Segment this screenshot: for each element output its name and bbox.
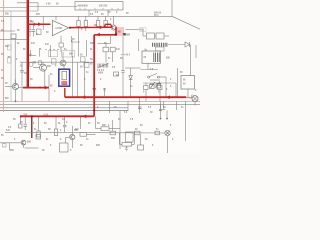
wire red bottom long	[65, 96, 186, 98]
wire r12 top lead	[105, 44, 107, 48]
wire r11 lead	[159, 90, 161, 102]
capacitor C9	[63, 125, 67, 127]
wire v163 low	[163, 101, 165, 109]
IC box U2 top center	[75, 2, 123, 11]
wire v56	[55, 116, 57, 129]
resistor R5	[96, 21, 99, 27]
wire right mid horizontal	[126, 29, 140, 31]
wire q3 bottom lead	[15, 90, 17, 102]
ground bottom mid	[125, 146, 128, 151]
wire h148	[25, 147, 39, 149]
wire v176 low	[176, 101, 178, 110]
wire v139	[139, 97, 141, 113]
resistor R18	[84, 63, 89, 67]
svg-text:88V: 88V	[36, 14, 41, 16]
wire red drop at q1	[115, 27, 117, 35]
resistor R28	[122, 143, 132, 147]
wire cap branch bottom	[33, 31, 35, 36]
wire v49 below stub	[48, 88, 50, 101]
wire v64 cap	[64, 116, 66, 125]
wire vert through red	[42, 16, 44, 30]
capacitor C10	[138, 107, 142, 109]
resistor R6	[104, 21, 107, 27]
wire low left v20	[19, 116, 21, 124]
node red corner dot	[115, 33, 117, 35]
resistor R12	[103, 47, 109, 52]
capacitor C6	[110, 47, 115, 52]
wire pink bus line	[0, 100, 200, 102]
svg-text:888 888: 888 888	[99, 6, 108, 8]
transistor Q1	[111, 16, 116, 30]
node red arrow h1	[38, 22, 42, 26]
wire q3 top lead	[15, 80, 17, 84]
wire R5 top lead	[97, 16, 99, 20]
resistor R7	[147, 33, 155, 39]
wire R5 bottom lead	[97, 26, 99, 29]
wire v65 low	[65, 137, 67, 143]
wire q6 base feed	[66, 136, 70, 138]
node small circle by lamp	[191, 95, 193, 97]
wire diagonal right	[172, 16, 200, 29]
wire v138	[138, 39, 140, 51]
wire q2 emitter	[44, 70, 46, 87]
resistor R27	[155, 131, 159, 135]
wire v104	[104, 88, 106, 97]
svg-text:8 88: 8 88	[46, 4, 51, 6]
component box low right	[138, 145, 144, 150]
node s2 box a	[150, 85, 155, 89]
wire opamp top feed	[55, 16, 57, 20]
wire mid v123 long	[122, 58, 124, 71]
wire v80	[80, 116, 82, 129]
transistor Q6	[70, 134, 75, 139]
wire c6 bottom lead	[112, 52, 114, 62]
wire red left stub to blue box	[23, 87, 49, 89]
wire v112	[112, 120, 114, 131]
wire q6 bottom lead	[71, 140, 73, 148]
wire R4 top lead	[85, 16, 87, 20]
op-amp U1	[52, 20, 68, 35]
node red dot stub	[39, 87, 41, 89]
wire v95 gray below	[95, 116, 97, 128]
wire cap branch top	[33, 24, 35, 29]
component small box mid	[114, 72, 119, 76]
svg-text:8V: 8V	[50, 86, 53, 88]
wire h128	[96, 128, 101, 130]
wire r18 top	[86, 40, 88, 57]
node s2 box b	[156, 84, 161, 88]
wire v185 right	[185, 101, 187, 141]
node red arrow h1b	[34, 23, 37, 26]
component small box c	[37, 29, 42, 35]
node red dot low left	[20, 115, 22, 117]
transistor Q3	[12, 83, 18, 89]
wire upper-left horizontal	[0, 10, 38, 12]
node red arrow return	[96, 33, 100, 37]
component box bottom	[60, 143, 69, 152]
node red arrow stub	[45, 86, 49, 90]
capacitor C11	[28, 30, 32, 32]
node dark junction block	[123, 33, 126, 36]
transformer TR1 core	[153, 43, 167, 47]
wire h83 right	[143, 82, 176, 84]
resistor R4	[84, 21, 87, 27]
wire pair link left	[143, 35, 147, 37]
wire v120 long	[119, 111, 121, 150]
wire k2 bottom lead	[187, 89, 189, 97]
transistor Q4 top center	[60, 60, 66, 66]
wire diode lead down	[130, 79, 132, 97]
lamp L1	[165, 130, 170, 135]
wire v128	[127, 101, 129, 111]
wire h146	[119, 143, 122, 145]
node red arrow bottom1	[82, 95, 86, 99]
ground	[121, 55, 125, 58]
transistor Q5	[21, 140, 26, 145]
node dot a	[160, 118, 162, 120]
wire q5 bottom	[23, 145, 25, 148]
node red junction lower	[93, 109, 95, 111]
wire top rail	[0, 15, 172, 17]
wire sub rail under opamp	[28, 6, 77, 8]
wire dark red bottom vertical	[31, 116, 33, 138]
wire bus line 4	[0, 110, 128, 112]
wire c9 lower	[64, 127, 66, 132]
wire red blue-box stub	[64, 88, 66, 97]
wire R6 top lead	[105, 16, 107, 20]
wire q2 base	[33, 67, 40, 69]
wire lower area v146	[110, 82, 177, 114]
wire r12 bottom lead	[105, 52, 107, 63]
wire v190 bottom	[190, 45, 192, 76]
resistor R11	[158, 86, 163, 90]
wire stub dot a	[160, 105, 162, 118]
resistor R29	[80, 133, 87, 137]
wire pink left margin vertical	[3, 0, 5, 112]
wire q4 leads	[63, 52, 77, 72]
relay K1 hatch	[154, 53, 159, 63]
wire relay bottom horizontal	[141, 69, 159, 71]
svg-text:8888: 8888	[98, 73, 104, 75]
transistor Q2	[40, 64, 47, 71]
diode D1	[185, 42, 190, 47]
capacitor C12	[33, 62, 36, 63]
wire v196	[195, 45, 197, 58]
capacitor C14	[159, 109, 162, 110]
node red arrow bottom2	[166, 95, 170, 99]
wire R3 bottom lead	[78, 27, 80, 57]
wire cap branch left mid	[20, 62, 49, 101]
node small box top	[156, 47, 165, 51]
wire h128 b	[109, 128, 120, 130]
connector J1 pins	[98, 63, 109, 68]
svg-text:88888888: 88888888	[78, 6, 89, 8]
wire left horizontal y31	[0, 30, 15, 32]
wire red horizontal into opamp	[28, 23, 51, 25]
resistor R1	[11, 34, 16, 39]
component box low mid	[126, 132, 134, 142]
wire r10 lead	[145, 90, 147, 102]
wire R3 top lead	[78, 16, 80, 20]
wire lamp stub	[194, 101, 196, 105]
wire diode branch	[130, 68, 132, 76]
box right K2	[181, 76, 195, 89]
node dot b	[166, 118, 168, 120]
resistor R19 inside blue box	[62, 71, 67, 80]
wire v176	[175, 83, 177, 97]
capacitor C1	[32, 30, 35, 32]
capacitor C2	[59, 43, 63, 47]
resistor R25	[110, 131, 116, 135]
svg-text:8.88: 8.88	[44, 115, 49, 117]
wire red main vertical	[27, 0, 30, 88]
capacitor C5	[121, 71, 124, 73]
wire red opamp output	[70, 26, 112, 28]
resistor R26	[134, 131, 140, 135]
wire q3 to red stub	[19, 87, 23, 89]
wire mid-left rail	[20, 61, 95, 63]
wire dashed rail	[45, 49, 59, 51]
node q3 junction dot	[15, 100, 17, 102]
wire lamp lead	[167, 136, 169, 153]
wire cap C2 lead	[60, 47, 62, 52]
wire q2 collector	[42, 62, 44, 64]
capacitor C15	[162, 108, 165, 110]
resistor R16	[81, 57, 86, 62]
resistor row left: R14	[39, 57, 90, 67]
wire v113	[110, 36, 112, 44]
wire c5 lead	[122, 72, 124, 97]
wire v84	[84, 62, 86, 97]
switch S2 cluster	[150, 82, 161, 89]
resistor R3	[77, 21, 80, 27]
wire h146 b	[132, 143, 135, 145]
svg-text:88 8: 88 8	[126, 55, 131, 57]
node red dot opamp out	[69, 27, 71, 29]
resistor R24	[101, 127, 109, 131]
wire pair link mid	[155, 35, 157, 37]
wire switch drop	[165, 77, 167, 97]
node red arrow down mid	[92, 88, 96, 92]
wire low left v25	[24, 116, 26, 124]
wire relay bottom lead	[147, 63, 149, 69]
wire h44 right	[168, 44, 185, 46]
wire c8 lower	[24, 126, 26, 130]
wire right area h68	[125, 67, 141, 69]
component blue highlight box	[59, 69, 70, 86]
wire v140 low	[140, 135, 142, 145]
wire right vertical top	[171, 0, 173, 16]
lamp L2 circle	[192, 96, 198, 102]
wire blue-box right verticals	[73, 62, 85, 97]
switch S1	[148, 74, 166, 81]
resistor R8	[156, 33, 164, 39]
wire red main vertical core	[27, 0, 29, 88]
wire q6 top lead	[71, 126, 73, 134]
wire r10 top	[145, 83, 147, 86]
wire r14 top	[39, 48, 41, 57]
wire red bottom fade	[186, 96, 193, 98]
wire q5 base feed	[0, 142, 21, 144]
capacitor C13	[103, 89, 106, 91]
node left label box b	[8, 57, 12, 63]
wire jog top	[17, 3, 38, 11]
wire v177	[177, 68, 179, 97]
wire stub dot b	[166, 111, 168, 119]
wire pair link right	[164, 35, 169, 37]
node label mid right	[140, 28, 147, 32]
node IC pin ticks	[80, 8, 118, 10]
node label box b	[62, 51, 75, 57]
wire R4 bottom lead	[85, 27, 87, 32]
svg-text:LM393: LM393	[55, 28, 63, 30]
resistor R21	[37, 131, 40, 137]
relay K1 box	[142, 51, 161, 63]
node red mark in blue box	[62, 82, 67, 85]
resistor R20	[19, 124, 22, 128]
wire r29 right	[87, 133, 96, 135]
wire mid rail	[98, 43, 111, 45]
node red arrow lower	[83, 115, 87, 119]
wire r13 top	[30, 50, 32, 57]
node left label box a	[8, 45, 12, 50]
wire red return h	[94, 34, 116, 36]
wire under opamp	[60, 36, 62, 43]
wire c7 lower	[21, 72, 23, 87]
wire elbow right of triangle	[71, 36, 80, 42]
wire red bump over q1	[104, 24, 112, 27]
component bottom left box	[3, 144, 7, 148]
wire bus line 2	[0, 104, 200, 106]
wire c7 below stub	[21, 88, 23, 101]
wire ground feed	[122, 36, 124, 54]
wire v143	[142, 30, 144, 36]
node red arrow out	[100, 26, 104, 30]
wire R6 bottom lead	[105, 26, 107, 29]
wire green-gray left vertical	[10, 11, 12, 101]
wire left column vertical	[14, 39, 16, 87]
wire v49	[48, 75, 50, 87]
capacitor C8	[24, 125, 28, 127]
wire q7 base	[28, 55, 36, 57]
wire bus line 3	[0, 107, 128, 109]
capacitor C7	[20, 71, 23, 73]
lamp L2 marks	[193, 97, 197, 101]
resistor R23	[36, 135, 41, 139]
wire r11 top	[159, 83, 161, 86]
wire v42	[38, 116, 40, 131]
wire left top h7	[0, 7, 28, 9]
wire drop v119	[118, 133, 120, 144]
wire q3 base	[5, 86, 12, 88]
resistor R22	[54, 129, 57, 136]
node label box a	[49, 51, 58, 57]
resistor R10	[144, 86, 149, 90]
wire c11 leads	[29, 24, 31, 36]
wire drop v134	[133, 133, 135, 144]
wire r15 top	[50, 45, 52, 57]
wire red long drop	[93, 35, 95, 117]
wire v160 low	[160, 101, 162, 109]
wire r16 top	[71, 40, 73, 57]
wire box pin left	[88, 10, 90, 16]
diode D2	[129, 76, 133, 80]
transistor Q7	[29, 63, 33, 67]
wire red lower long	[20, 115, 94, 117]
node red dot low left2	[31, 115, 33, 117]
wire left horizontal y40	[0, 39, 30, 41]
resistor R15	[52, 59, 57, 64]
node red stamp label	[117, 28, 124, 36]
svg-text:88 8: 88 8	[154, 15, 159, 17]
wire bottom left drop	[9, 143, 11, 151]
wire box pin right	[107, 10, 109, 16]
wire low rail h133	[5, 131, 165, 134]
